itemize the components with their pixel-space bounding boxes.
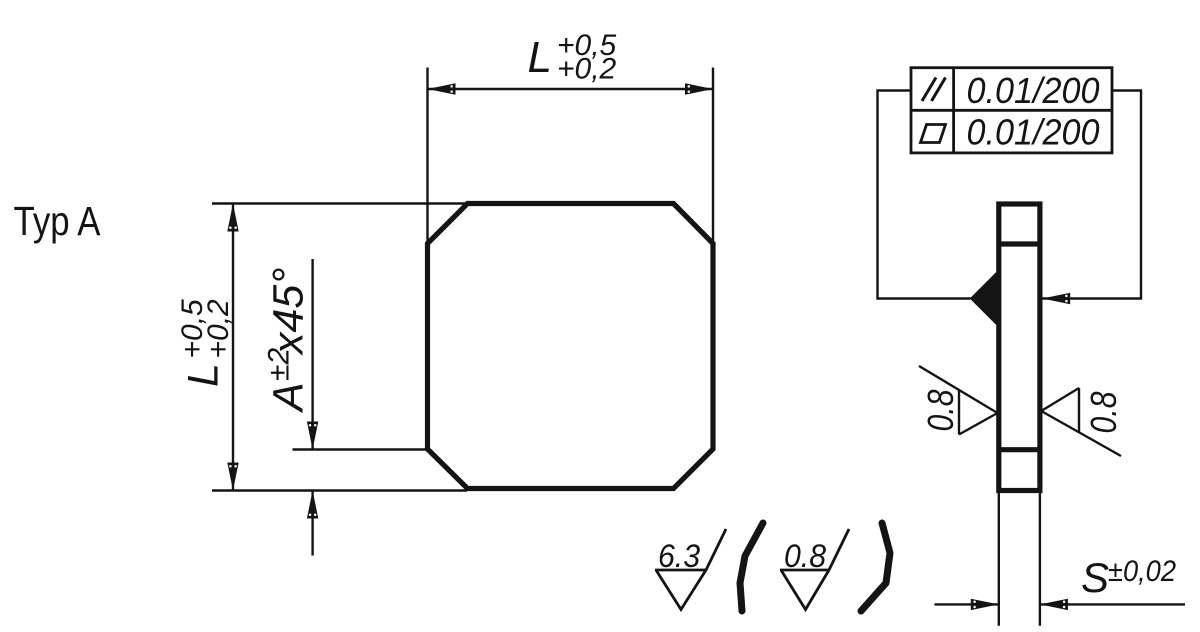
svg-text:0.01/200: 0.01/200	[967, 70, 1100, 111]
svg-text:0.01/200: 0.01/200	[967, 112, 1100, 153]
svg-text:L: L	[180, 363, 228, 387]
svg-text:0.8: 0.8	[1083, 392, 1124, 434]
svg-text:±0,02: ±0,02	[1108, 555, 1176, 588]
svg-text:6.3: 6.3	[658, 538, 700, 574]
svg-text:+0,2: +0,2	[202, 299, 235, 359]
svg-text:0.8: 0.8	[784, 538, 826, 574]
svg-text:x45°: x45°	[265, 267, 313, 356]
svg-text:S: S	[1081, 554, 1109, 601]
svg-text:0.8: 0.8	[920, 390, 961, 432]
svg-text:Typ A: Typ A	[14, 198, 102, 244]
svg-text:L: L	[528, 33, 552, 82]
svg-text:+0,2: +0,2	[557, 53, 617, 86]
svg-text:A: A	[265, 382, 313, 414]
